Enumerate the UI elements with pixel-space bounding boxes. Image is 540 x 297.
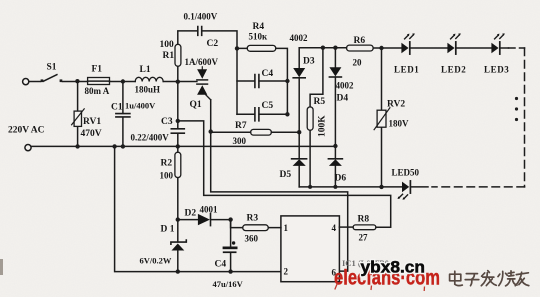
svg-text:4: 4: [332, 223, 337, 233]
junction R2/D1/D2: [176, 217, 180, 221]
svg-text:D 1: D 1: [161, 225, 175, 235]
svg-text:R2: R2: [161, 159, 173, 169]
input terminal top: [23, 79, 29, 85]
svg-text:S1: S1: [47, 63, 57, 73]
gate line to pin 6: [211, 100, 348, 271]
svg-text:180uH: 180uH: [135, 85, 161, 95]
bridge negative line: [299, 186, 402, 188]
svg-text:100: 100: [160, 40, 175, 50]
svg-text:D6: D6: [335, 174, 347, 184]
svg-text:100: 100: [160, 171, 174, 181]
resistor R7: [211, 129, 300, 135]
resistor R1: [175, 44, 181, 121]
svg-text:100K: 100K: [318, 115, 328, 137]
IC U1 box: [281, 216, 340, 282]
junction R7 right on D3-D5 line: [297, 130, 301, 134]
capacitor C1: [116, 82, 130, 147]
junction D1 bottom: [176, 269, 180, 273]
svg-text:C1: C1: [111, 103, 123, 113]
junction D4 top: [333, 46, 337, 50]
svg-text:80m A: 80m A: [85, 86, 110, 96]
svg-text:D5: D5: [280, 170, 292, 180]
varistor RV2: [374, 48, 390, 187]
junction down-line: [112, 144, 116, 148]
LED50: [398, 181, 429, 200]
MT1 outer line to R8: [178, 121, 391, 227]
junction D6 bottom: [333, 185, 337, 189]
wire C2 right to R4 node: [202, 31, 237, 49]
fuse F1: [88, 78, 110, 85]
junction C1 bottom: [121, 144, 125, 148]
svg-text:1u/400V: 1u/400V: [125, 101, 156, 111]
svg-text:R7: R7: [235, 121, 247, 131]
svg-text:2: 2: [284, 267, 289, 277]
svg-text:R4: R4: [253, 22, 265, 32]
inductor L1: [135, 77, 163, 81]
resistor R8: [339, 225, 376, 230]
junction C3 bottom: [176, 144, 180, 148]
wire LED1 to LED2: [410, 47, 447, 49]
edge smudge left: [0, 259, 3, 275]
svg-text:LED1: LED1: [394, 65, 419, 75]
LED2: [447, 33, 460, 54]
svg-text:510к: 510к: [249, 32, 269, 42]
svg-text:0.1/400V: 0.1/400V: [184, 12, 218, 22]
junction LED string / RV2: [379, 46, 383, 50]
junction gate / R7: [209, 129, 213, 133]
svg-text:6V/0.2W: 6V/0.2W: [140, 256, 172, 266]
svg-text:4002: 4002: [336, 81, 355, 91]
resistor R5: [307, 48, 323, 187]
svg-text:R3: R3: [247, 214, 259, 224]
svg-text:1: 1: [284, 223, 289, 233]
rail B (lower input rail): [31, 145, 335, 147]
wire down-line and rail C: [115, 146, 281, 271]
svg-text:220V AC: 220V AC: [8, 126, 45, 136]
junction C5 right: [285, 112, 289, 116]
zener D1: [171, 220, 186, 272]
dashed continuation top right: [509, 47, 525, 49]
svg-text:1A/600V: 1A/600V: [185, 57, 219, 67]
junction R5 tap: [321, 46, 325, 50]
watermark red marks: [335, 283, 425, 291]
triac Q1: [197, 67, 211, 100]
wire fuse to L1: [110, 81, 136, 83]
svg-text:C4: C4: [262, 69, 274, 79]
junction C4 bottom: [228, 269, 232, 273]
resistor R3: [231, 220, 281, 231]
watermark chinese characters: [450, 271, 529, 286]
switch S1: [41, 75, 63, 83]
ellipsis dots LED string: [515, 97, 518, 121]
LED3: [491, 33, 504, 54]
C4 C5 right vertical: [286, 81, 288, 114]
svg-text:F1: F1: [92, 65, 103, 75]
input terminal bottom: [25, 145, 31, 151]
svg-text:C5: C5: [262, 101, 274, 111]
svg-text:LED50: LED50: [392, 168, 420, 178]
diode D5: [292, 159, 307, 187]
svg-text:R5: R5: [314, 97, 326, 107]
svg-text:4001: 4001: [200, 205, 219, 215]
svg-text:R6: R6: [354, 36, 366, 46]
svg-text:D3: D3: [303, 57, 315, 67]
svg-text:LED3: LED3: [484, 65, 509, 75]
svg-text:LED2: LED2: [441, 65, 466, 75]
junction rail B end on D4-D6 line: [333, 144, 337, 148]
wire L1 to Q1: [163, 81, 197, 83]
wire terminal to switch: [29, 81, 41, 83]
junction R1 rail A: [176, 80, 180, 84]
wire switch to fuse: [63, 81, 88, 83]
svg-text:ybx8.cn: ybx8.cn: [361, 258, 426, 277]
upper rail D3 to R6: [299, 48, 346, 68]
node C1 top: [121, 79, 125, 83]
junction RV2 bottom: [379, 185, 383, 189]
dashed right side vertical: [524, 48, 526, 187]
svg-text:360: 360: [245, 234, 259, 244]
electrolytic C4: [223, 220, 238, 272]
capacitor C2: [198, 27, 202, 36]
resistor R4: [237, 45, 287, 81]
resistor R6: [347, 45, 402, 51]
junction MT1 branch: [176, 119, 180, 123]
svg-text:300: 300: [233, 136, 247, 146]
dashed bottom return: [432, 186, 525, 188]
node R4 left: [235, 46, 239, 50]
diode D2: [178, 214, 231, 226]
svg-text:Q1: Q1: [190, 100, 202, 110]
LED1: [401, 33, 414, 54]
resistor R2: [175, 146, 181, 219]
wire LED2 to LED3: [456, 47, 491, 49]
node junction S1/RV1: [75, 79, 79, 83]
diode D3: [293, 68, 305, 159]
svg-text:27: 27: [359, 233, 369, 243]
svg-text:R8: R8: [358, 215, 370, 225]
svg-text:C4: C4: [215, 260, 227, 270]
varistor RV1: [72, 82, 85, 147]
junction RV1 bottom: [75, 144, 79, 148]
svg-text:R1: R1: [163, 51, 175, 61]
C4 C5 left vertical: [236, 48, 238, 114]
svg-text:470V: 470V: [81, 129, 102, 139]
svg-text:180V: 180V: [389, 119, 410, 129]
junction D2/C4/R3: [228, 217, 232, 221]
diode D4: [329, 48, 341, 159]
svg-text:4002: 4002: [290, 33, 309, 43]
capacitor C5: [237, 108, 287, 121]
junction C4 right: [285, 79, 289, 83]
diode D6: [328, 159, 342, 187]
svg-text:RV1: RV1: [83, 117, 101, 127]
junction R5 bottom: [308, 185, 312, 189]
svg-text:47u/16V: 47u/16V: [213, 279, 244, 289]
svg-text:C2: C2: [207, 39, 219, 49]
wire LED3 to dashed corner: [500, 47, 508, 49]
capacitor C3: [171, 121, 184, 146]
svg-text:0.22/400V: 0.22/400V: [131, 133, 170, 143]
svg-text:L1: L1: [140, 65, 151, 75]
svg-text:C3: C3: [161, 117, 173, 127]
capacitor C4: [237, 75, 287, 88]
wire C2 branch left: [178, 31, 198, 44]
svg-text:20: 20: [353, 58, 363, 68]
svg-text:D4: D4: [337, 94, 349, 104]
svg-text:RV2: RV2: [387, 100, 405, 110]
svg-text:D2: D2: [185, 209, 197, 219]
